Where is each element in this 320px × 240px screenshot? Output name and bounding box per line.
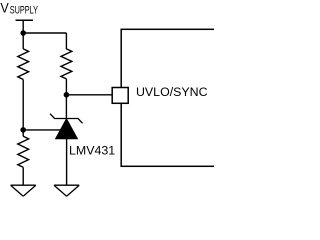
resistor R1 (upper left divider) <box>18 49 29 80</box>
wire junction A to right branch corner <box>23 32 66 34</box>
pin square UVLO/SYNC <box>112 88 128 104</box>
ground (left, under R2) <box>11 185 36 196</box>
supply terminal bar <box>16 19 34 21</box>
IC block outline <box>121 29 217 166</box>
svg-text:UVLO/SYNC: UVLO/SYNC <box>136 85 208 99</box>
svg-text:LMV431: LMV431 <box>69 144 115 158</box>
net label VSUPPLY <box>0 0 38 16</box>
svg-text:SUPPLY: SUPPLY <box>10 5 39 17</box>
shunt regulator U1 LMV431 cathode bar with bent ends <box>50 114 82 124</box>
wire junction B to LMV431 reference <box>23 129 61 131</box>
junction dot A <box>20 30 26 36</box>
junction dot B <box>20 127 26 133</box>
wire junction C to pin square <box>66 94 112 96</box>
wire corner down to R3 <box>65 33 67 49</box>
wire supply bar to junction A and R1 <box>22 20 24 49</box>
svg-text:V: V <box>0 0 9 16</box>
wire R3 bottom to junction C <box>65 79 67 119</box>
wire R1 bottom to junction B and R2 <box>22 79 24 136</box>
ground (middle, under LMV431) <box>54 185 79 196</box>
shunt regulator U1 LMV431 triangle <box>56 119 78 139</box>
wire LMV431 anode to ground <box>66 139 68 185</box>
resistor R2 (lower left divider) <box>18 136 29 167</box>
resistor R3 (upper right divider) <box>61 49 72 79</box>
wire R2 bottom to ground <box>22 167 24 185</box>
junction dot C <box>64 92 70 98</box>
